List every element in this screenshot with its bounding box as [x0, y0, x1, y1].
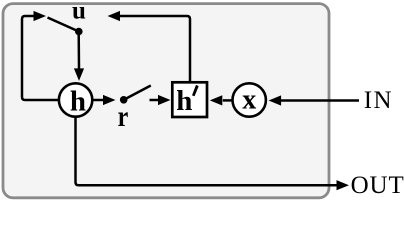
unit h' (candidate state box) [172, 82, 207, 117]
svg-text:u: u [72, 0, 86, 25]
wire: h output to switch r [94, 99, 105, 102]
arrowhead into switch u (left throw) [34, 11, 47, 21]
node r (switch pole dot) [120, 96, 128, 104]
wire: switch r to h' input [150, 99, 159, 102]
arrowhead into x right [269, 95, 282, 105]
arrowhead into h' left [158, 95, 171, 105]
svg-text:h: h [70, 85, 86, 117]
wire: feedback loop from h left side up to switch u [22, 16, 58, 100]
wire: IN to x [281, 99, 359, 102]
wire: from h' top up and left to switch u (right throw) [120, 16, 190, 81]
arrowhead OUT [337, 180, 350, 190]
wire: x to h' (pointing left) [223, 99, 232, 102]
wire: from node u down into h [77, 33, 80, 69]
arrowhead (right throw, pointing left) [108, 11, 121, 21]
wire: switch u blade [48, 18, 79, 32]
wire: switch r blade (open) [124, 86, 151, 100]
node u (switch pole dot) [75, 28, 83, 36]
arrowhead into switch r pole [103, 95, 116, 105]
svg-text:OUT: OUT [351, 172, 404, 199]
arrowhead into h' right [210, 95, 223, 105]
cell body (rounded enclosure) [3, 4, 329, 198]
arrowhead into h top [74, 68, 84, 81]
svg-text:IN: IN [364, 87, 393, 114]
node x (input circle) [233, 83, 266, 116]
wire: h down and right to OUT [76, 117, 337, 185]
label h' prime mark [193, 85, 199, 95]
node h (state circle) [59, 83, 92, 116]
svg-text:x: x [242, 84, 256, 115]
svg-text:r: r [118, 99, 129, 132]
svg-text:h: h [176, 85, 192, 117]
